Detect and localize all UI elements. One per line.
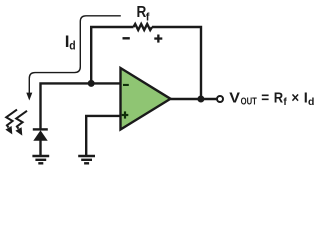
svg-text:f: f [146,11,150,23]
wire: feedback top-left segment from node A up and right to resistor [91,27,133,83]
op-amp U1 [121,68,171,130]
node A junction dot (summing node) [88,80,95,87]
output terminal open circle [217,96,223,102]
ground (photodiode) [32,156,49,163]
svg-text:×: × [291,91,299,107]
node B output junction dot [197,96,204,103]
svg-text:d: d [69,39,75,53]
op-amp inverting input minus mark [123,84,129,86]
photodiode D1 cathode bar [33,128,48,130]
wire: inverting input wire and photodiode branch [41,83,121,129]
polarity minus label (left of resistor) [123,37,130,39]
wire: photodiode to ground [39,140,41,155]
svg-text:d: d [308,96,314,108]
svg-text:R: R [274,91,284,107]
photodiode D1 anode triangle [33,130,47,140]
current Id indicator curve with arrow [29,16,121,94]
svg-text:=: = [261,91,269,107]
wire: feedback top-right segment down to output node [152,27,201,99]
wire: op-amp output to terminal [171,98,217,100]
wire: non-inverting input to ground [86,116,120,155]
op-amp non-inverting input plus mark [122,111,129,118]
label VOUT = Rf x Id [229,91,314,108]
light ray bolt 1 [5,110,17,135]
svg-text:OUT: OUT [241,97,257,108]
ground (non-inverting input) [78,156,95,163]
resistor Rf [134,24,153,30]
polarity plus label (right of resistor) [154,35,162,43]
svg-text:V: V [229,91,240,107]
current Id arrowhead [26,93,32,101]
light ray bolt 2 [15,111,27,136]
